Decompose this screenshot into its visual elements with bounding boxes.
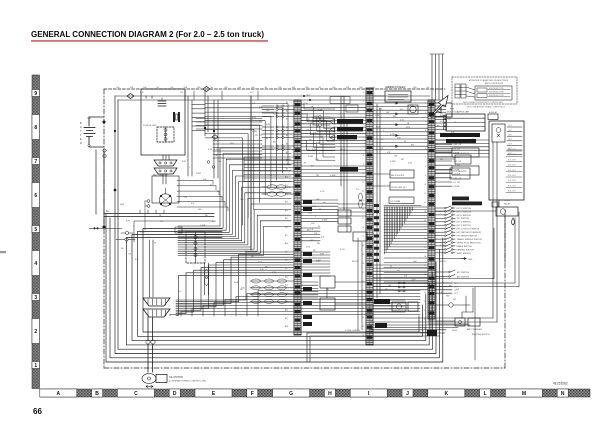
svg-text:G-B: G-B [241, 287, 245, 289]
key switch fan-out wires [177, 181, 228, 212]
diode symbols row [330, 119, 335, 140]
svg-text:22: 22 [424, 292, 426, 294]
svg-text:20A: 20A [305, 86, 309, 89]
svg-text:W: W [442, 282, 444, 284]
svg-text:MULTI CONTROLLER: MULTI CONTROLLER [485, 83, 504, 85]
accessory connector with terminals [154, 155, 177, 184]
svg-text:F: F [251, 391, 254, 397]
svg-text:0.5L: 0.5L [321, 236, 325, 238]
svg-text:D: D [173, 391, 177, 397]
svg-text:R-W: R-W [318, 110, 322, 112]
svg-text:0.5G: 0.5G [340, 249, 345, 251]
svg-text:TRAVEL SPEED-D SWITCH: TRAVEL SPEED-D SWITCH [457, 238, 483, 241]
svg-text:3: 3 [363, 110, 364, 112]
svg-text:DX CONN: DX CONN [391, 201, 401, 203]
svg-text:28: 28 [362, 335, 364, 337]
svg-text:23: 23 [424, 301, 426, 303]
svg-text:A8: A8 [286, 159, 288, 162]
svg-text:25: 25 [362, 308, 364, 310]
svg-text:W: W [454, 122, 456, 124]
twisted pair wires to CN1 [262, 185, 294, 196]
svg-text:4: 4 [425, 130, 426, 132]
svg-text:B5: B5 [286, 135, 288, 137]
svg-text:5A: 5A [157, 86, 160, 89]
tilt angle sensor box [435, 166, 479, 175]
svg-text:HORN: HORN [504, 200, 510, 202]
svg-text:10A: 10A [292, 86, 296, 89]
harness row jog steps right of CN1 [301, 95, 335, 160]
svg-text:1: 1 [34, 363, 37, 369]
svg-text:G-Y: G-Y [178, 291, 182, 293]
svg-text:12: 12 [362, 191, 364, 193]
svg-text:4E253583: 4E253583 [553, 382, 568, 386]
svg-text:M: M [522, 391, 526, 397]
svg-text:A26: A26 [285, 309, 288, 312]
main fuse F0 [127, 87, 210, 99]
svg-text:W: W [154, 243, 156, 245]
svg-text:5: 5 [363, 128, 364, 130]
svg-text:8: 8 [363, 155, 364, 157]
svg-text:0.5L: 0.5L [379, 109, 383, 111]
svg-text:3: 3 [425, 121, 426, 123]
svg-text:21: 21 [362, 272, 364, 274]
svg-text:4: 4 [34, 261, 37, 267]
wires CN2 to CN3 lower [373, 265, 428, 312]
svg-text:27: 27 [362, 326, 364, 328]
svg-text:B9: B9 [286, 168, 288, 170]
svg-text:BACK BUZZER: BACK BUZZER [391, 174, 405, 177]
svg-text:R-W: R-W [312, 149, 316, 151]
svg-text:GW: GW [198, 209, 201, 211]
svg-text:KEY SWITCH: KEY SWITCH [153, 175, 168, 177]
svg-text:L: L [273, 128, 274, 130]
svg-text:20: 20 [424, 274, 426, 276]
svg-text:0.5 BR: 0.5 BR [454, 153, 460, 155]
svg-text:0.5G: 0.5G [258, 261, 263, 263]
svg-text:B1: B1 [286, 102, 288, 104]
svg-text:W: W [304, 162, 306, 164]
feeder verticals right of fuse box [114, 90, 218, 178]
mast connector supply pair [150, 240, 154, 297]
svg-text:8: 8 [34, 125, 37, 131]
svg-text:G-B: G-B [447, 119, 451, 121]
svg-text:0.5G: 0.5G [320, 191, 325, 193]
svg-text:RB: RB [323, 202, 326, 204]
controller harness label rows [435, 140, 461, 188]
svg-text:B13: B13 [285, 202, 288, 204]
svg-text:10A: 10A [346, 86, 350, 89]
reverse-video harness labels column [303, 119, 390, 328]
svg-text:R-L: R-L [218, 161, 222, 163]
svg-text:B25: B25 [285, 301, 288, 303]
svg-text:B7: B7 [286, 152, 288, 154]
svg-text:15A: 15A [278, 86, 282, 89]
svg-text:T: T [80, 130, 82, 133]
svg-text:A2: A2 [286, 109, 288, 112]
svg-text:B15: B15 [285, 218, 288, 220]
svg-text:LIFT 2 SWITCH: LIFT 2 SWITCH [457, 222, 472, 224]
key start switch and charger plug [428, 288, 490, 336]
svg-text:0.85R: 0.85R [196, 173, 202, 175]
svg-text:A10: A10 [285, 176, 288, 179]
svg-text:13: 13 [424, 211, 426, 213]
svg-text:Y-G: Y-G [306, 149, 310, 151]
svg-text:20A: 20A [359, 86, 363, 89]
sensor reverse label bars [440, 133, 480, 143]
tiny wire code labels [120, 92, 474, 293]
red title underline [31, 40, 268, 41]
svg-text:26: 26 [424, 328, 426, 330]
svg-text:G-Y: G-Y [440, 121, 444, 123]
svg-text:B27: B27 [285, 318, 288, 320]
svg-text:A: A [80, 126, 82, 129]
accessory connector circles near CN1 [313, 116, 330, 127]
svg-text:B3: B3 [286, 119, 288, 121]
svg-text:2: 2 [425, 112, 426, 114]
svg-text:L-W: L-W [268, 175, 272, 177]
svg-text:12: 12 [424, 202, 426, 204]
svg-text:17: 17 [362, 236, 364, 238]
svg-text:15A: 15A [332, 86, 336, 89]
svg-text:15A: 15A [116, 86, 120, 89]
svg-text:R-W: R-W [272, 272, 276, 274]
svg-text:5A: 5A [265, 86, 268, 89]
svg-text:BR-W: BR-W [352, 261, 358, 263]
page title [31, 29, 264, 39]
svg-text:W-B: W-B [306, 95, 311, 97]
svg-text:R-W: R-W [308, 213, 312, 215]
svg-text:0.5L: 0.5L [387, 152, 391, 154]
controller internal text rows [506, 149, 522, 193]
svg-text:24: 24 [424, 310, 426, 312]
svg-text:A22: A22 [285, 275, 288, 278]
svg-text:(LOWERING SPEED CONTROL SW): (LOWERING SPEED CONTROL SW) [169, 381, 206, 383]
svg-text:FUSIBLE LINK: FUSIBLE LINK [143, 125, 157, 127]
svg-text:0.85B: 0.85B [214, 149, 220, 151]
svg-text:0.5G: 0.5G [440, 245, 445, 247]
svg-text:W: W [210, 185, 212, 187]
svg-text:6: 6 [425, 148, 426, 150]
svg-text:0.5G: 0.5G [212, 221, 217, 223]
svg-text:0.85R: 0.85R [140, 232, 146, 234]
svg-text:15: 15 [362, 218, 364, 220]
svg-text:14: 14 [362, 209, 364, 211]
lighting circuit rows [196, 119, 294, 183]
oil motor (lowering speed control) [142, 374, 206, 388]
legend pointer arrow [433, 96, 448, 114]
svg-text:LIFT LATCHOUT SENSOR: LIFT LATCHOUT SENSOR [457, 231, 482, 234]
svg-text:0.85R: 0.85R [440, 115, 446, 117]
svg-text:W-B: W-B [406, 127, 411, 129]
svg-text:Y-R: Y-R [456, 289, 460, 291]
svg-text:L: L [307, 113, 308, 115]
svg-text:A16: A16 [285, 226, 288, 229]
svg-text:0.85R: 0.85R [316, 260, 322, 262]
key cylinder terminals [145, 200, 150, 230]
svg-text:L: L [189, 167, 190, 169]
svg-text:5A: 5A [319, 86, 322, 89]
instrument boxes near CN2 [373, 170, 414, 190]
speed sensor box [435, 148, 479, 157]
operation switch rows with labels [435, 197, 483, 255]
svg-text:LIFT HEIGHT SWITCH: LIFT HEIGHT SWITCH [457, 236, 478, 238]
svg-text:GW: GW [394, 155, 397, 157]
svg-text:A14: A14 [285, 209, 288, 212]
svg-text:LIFT-L SWITCH: LIFT-L SWITCH [457, 215, 472, 217]
svg-text:20A: 20A [251, 86, 255, 89]
svg-text:Y-R: Y-R [184, 197, 188, 199]
svg-text:W: W [318, 226, 320, 228]
svg-text:13: 13 [362, 200, 364, 202]
long return verticals right of CN2 [358, 104, 380, 330]
svg-text:LIFT 3 SWITCH: LIFT 3 SWITCH [457, 225, 472, 227]
svg-text:A12: A12 [285, 192, 288, 195]
svg-text:6: 6 [34, 193, 37, 199]
svg-text:BR: BR [273, 142, 276, 144]
svg-text:MULTI CONTROLLER: MULTI CONTROLLER [447, 112, 469, 114]
svg-text:BR: BR [121, 248, 124, 250]
svg-text:LIFT-C SWITCH: LIFT-C SWITCH [457, 211, 472, 213]
svg-text:21: 21 [424, 283, 426, 285]
svg-text:1: 1 [425, 103, 426, 105]
svg-text:0.5 Y-B: 0.5 Y-B [454, 165, 461, 167]
svg-text:RB: RB [273, 114, 276, 116]
svg-text:Y-R: Y-R [314, 233, 318, 235]
svg-text:8: 8 [425, 166, 426, 168]
svg-text:2B: 2B [180, 92, 183, 94]
svg-text:R-W: R-W [376, 127, 380, 129]
attachment switch rows [435, 270, 470, 295]
svg-text:L: L [457, 112, 458, 114]
svg-text:18: 18 [424, 256, 426, 258]
svg-text:L: L [383, 130, 384, 132]
svg-text:NOT TO BE APPLIED ON ANY OTHER: NOT TO BE APPLIED ON ANY OTHER TRUCK [467, 106, 506, 109]
A relay box [488, 111, 498, 120]
svg-text:SOL OUT: SOL OUT [508, 170, 517, 172]
svg-text:W-B: W-B [230, 143, 235, 145]
svg-text:0.5 BR: 0.5 BR [454, 169, 460, 171]
svg-text:A18: A18 [285, 242, 288, 245]
svg-text:SOL OUT: SOL OUT [508, 191, 517, 193]
svg-text:9: 9 [363, 164, 364, 166]
svg-text:LIFT-D SWITCH: LIFT-D SWITCH [457, 208, 472, 210]
svg-text:0.5L: 0.5L [313, 133, 317, 135]
svg-text:15A: 15A [170, 86, 174, 89]
svg-text:0.85R: 0.85R [390, 134, 396, 136]
svg-text:GW: GW [310, 240, 313, 242]
wires CN2 to CN3 upper with arrows [373, 102, 428, 153]
svg-text:0.5L: 0.5L [259, 107, 263, 109]
svg-text:G-R: G-R [240, 199, 244, 201]
svg-text:2: 2 [34, 329, 37, 335]
svg-text:10A: 10A [184, 86, 188, 89]
fuse pair FH1 [89, 228, 135, 242]
svg-text:0.5G: 0.5G [408, 163, 413, 165]
svg-text:GW: GW [266, 110, 269, 112]
svg-text:A20: A20 [285, 259, 288, 262]
svg-text:A28: A28 [285, 325, 288, 328]
bottom registration scale bar [40, 389, 590, 397]
svg-text:L: L [309, 257, 310, 259]
svg-text:B: B [80, 122, 82, 125]
svg-text:GW: GW [316, 199, 319, 201]
S2 pin label column [374, 204, 379, 262]
svg-text:2B: 2B [313, 250, 316, 252]
ground arrow [435, 258, 473, 262]
ground bus bottom wires [307, 330, 445, 362]
wires CN1 to CN2 mid [301, 200, 338, 298]
svg-text:GW: GW [388, 285, 391, 287]
flasher unit box [341, 96, 367, 241]
svg-text:Y-R: Y-R [128, 254, 132, 256]
svg-text:0.5L: 0.5L [135, 259, 139, 261]
svg-text:0.5G: 0.5G [400, 119, 405, 121]
harness connector strip CN2 [366, 88, 373, 345]
key switch SW1 housing [152, 175, 179, 203]
fuse rating labels along top bus [116, 86, 430, 89]
small relays near checker [392, 302, 418, 311]
svg-text:7: 7 [34, 159, 37, 165]
svg-text:0.5 G-R: 0.5 G-R [454, 157, 461, 159]
feeder junction circles [207, 161, 215, 169]
svg-text:PLUG: PLUG [452, 330, 458, 332]
key switch rotary contact symbol [159, 188, 171, 206]
svg-text:G-Y: G-Y [250, 119, 254, 121]
svg-text:PARKING SWITCH: PARKING SWITCH [457, 248, 475, 251]
svg-text:SWING PLUG SELECTOR: SWING PLUG SELECTOR [457, 242, 482, 244]
svg-text:SOL OUT: SOL OUT [508, 159, 517, 161]
svg-text:10A: 10A [130, 86, 134, 89]
svg-text:20A: 20A [143, 86, 147, 89]
left edge registration tick [0, 251, 6, 253]
svg-text:GW: GW [446, 296, 449, 298]
svg-text:BRAKE SWITCH: BRAKE SWITCH [457, 245, 473, 248]
svg-text:L-R: L-R [260, 269, 264, 271]
mid-left bus wires [96, 150, 214, 227]
svg-text:ATT SWITCH: ATT SWITCH [457, 276, 470, 279]
svg-text:R-L: R-L [356, 189, 360, 191]
svg-text:B21: B21 [285, 268, 288, 270]
shielded pair cluster [250, 279, 294, 303]
lowering valve connector circles [146, 340, 155, 372]
svg-text:B+: B+ [106, 211, 110, 213]
feeder drop wires from top bus [185, 91, 258, 100]
svg-text:R-W: R-W [126, 221, 130, 223]
svg-text:GW: GW [244, 251, 247, 253]
svg-text:W: W [404, 141, 406, 143]
page number 66 [33, 407, 42, 416]
svg-text:0.85R: 0.85R [314, 116, 320, 118]
svg-text:0.5G: 0.5G [306, 247, 311, 249]
svg-text:B17: B17 [285, 235, 288, 237]
svg-text:SOL OUT: SOL OUT [508, 175, 517, 177]
svg-text:W: W [266, 138, 268, 140]
svg-text:G-B: G-B [259, 135, 263, 137]
svg-text:9: 9 [425, 175, 426, 177]
svg-text:20A: 20A [413, 86, 417, 89]
svg-text:0.5L: 0.5L [191, 203, 195, 205]
wires CN3 to controller [435, 106, 489, 157]
svg-text:R: R [80, 142, 82, 145]
svg-text:T: T [80, 134, 82, 137]
svg-text:G-Y: G-Y [250, 92, 254, 94]
outer dash-dot boundary frame [104, 89, 505, 368]
svg-text:G: G [289, 391, 293, 397]
svg-text:0.5 BR: 0.5 BR [454, 186, 460, 188]
svg-text:19: 19 [424, 265, 426, 267]
svg-text:0.85R: 0.85R [322, 219, 328, 221]
svg-text:RB: RB [453, 299, 456, 301]
svg-text:20A: 20A [197, 86, 201, 89]
svg-text:0.5G: 0.5G [304, 103, 309, 105]
svg-text:0.85 L-W: 0.85 L-W [454, 161, 462, 163]
svg-text:24: 24 [362, 299, 364, 301]
wire routing loop nest [106, 96, 443, 362]
svg-text:OPT: OPT [454, 293, 459, 295]
wires CN1 to CN2 upper [301, 104, 366, 154]
svg-text:R-W: R-W [182, 161, 186, 163]
horn relay with bulb [435, 200, 518, 262]
svg-text:SOL OUT: SOL OUT [508, 165, 517, 167]
svg-text:0.85R: 0.85R [252, 131, 258, 133]
svg-text:0.5 G-R: 0.5 G-R [454, 174, 461, 176]
battery terminal connectors [103, 121, 116, 228]
nested corner wires from top feeders [205, 96, 288, 250]
svg-text:15: 15 [424, 229, 426, 231]
svg-text:COMB. WIRING: COMB. WIRING [345, 330, 361, 332]
twisted pair on meter wires [205, 263, 209, 295]
horn relay box with diode [431, 103, 452, 117]
svg-text:A24: A24 [285, 292, 288, 295]
svg-text:SOL OUT: SOL OUT [508, 154, 517, 156]
lamp harness rows [213, 141, 262, 159]
svg-text:OPT: OPT [454, 283, 459, 285]
svg-text:0.85B: 0.85B [390, 161, 396, 163]
svg-text:SOL OUT: SOL OUT [508, 180, 517, 182]
svg-text:0.5G: 0.5G [208, 149, 213, 151]
svg-text:19: 19 [362, 254, 364, 256]
rear lamp relay boxes [330, 97, 358, 113]
svg-text:L-R: L-R [140, 92, 144, 94]
svg-text:22: 22 [362, 281, 364, 283]
svg-text:N: N [561, 391, 565, 397]
svg-text:E: E [80, 138, 82, 141]
svg-text:0.5G: 0.5G [316, 143, 321, 145]
svg-text:0.85B: 0.85B [200, 225, 206, 227]
controller feed verticals from top [430, 54, 444, 100]
multi controller block [444, 112, 486, 132]
top supply bus wires [115, 96, 445, 100]
svg-text:5A: 5A [427, 86, 430, 89]
svg-text:2B: 2B [255, 135, 258, 137]
svg-text:11: 11 [424, 193, 426, 195]
harness connector strip CN3 [427, 100, 437, 336]
svg-text:A RELAY: A RELAY [489, 111, 498, 114]
CN1 pin number ticks [285, 92, 426, 337]
svg-text:1: 1 [363, 92, 364, 94]
wire stair bundle from key switch to harness connector CN1 [178, 148, 291, 255]
wires CN1 CN2 mid2 [301, 166, 366, 216]
svg-text:J: J [406, 391, 409, 397]
svg-text:0.5G: 0.5G [312, 206, 317, 208]
svg-text:L: L [133, 226, 134, 228]
svg-text:A4: A4 [286, 126, 288, 129]
left registration scale bar [32, 75, 40, 389]
svg-text:66: 66 [33, 407, 42, 416]
svg-text:K: K [444, 391, 448, 397]
svg-text:R-L: R-L [160, 221, 164, 223]
svg-text:W-B: W-B [120, 204, 125, 206]
